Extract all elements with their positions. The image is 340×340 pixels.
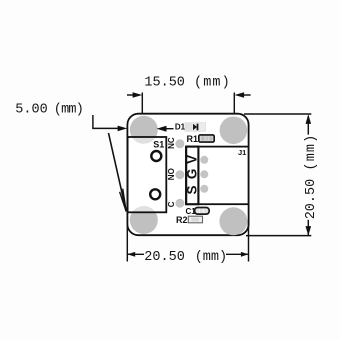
dim 15.50 right arrow bbox=[235, 92, 251, 98]
S1 hole 1 bbox=[151, 151, 161, 161]
svg-text:V: V bbox=[185, 155, 200, 164]
svg-text:C: C bbox=[167, 201, 176, 207]
J1 pad 3 bbox=[200, 185, 208, 193]
svg-text:5.00(mm): 5.00(mm) bbox=[15, 102, 83, 117]
svg-text:D1: D1 bbox=[175, 123, 186, 132]
J1 pad 2 bbox=[200, 170, 208, 178]
svg-text:NC: NC bbox=[167, 137, 176, 149]
dim 15.50 right extension line bbox=[233, 93, 235, 114]
dim 20.50 right top extension line bbox=[244, 113, 311, 115]
header SGV box bbox=[186, 147, 198, 205]
board outline bbox=[127, 114, 248, 236]
mounting hole bottom-right bbox=[219, 207, 247, 235]
dim 20.50 right dimension line bbox=[307, 116, 309, 135]
pad NO bbox=[175, 170, 184, 179]
mounting hole top-left bbox=[130, 116, 158, 144]
dim 20.50 right bottom arrowhead bbox=[306, 226, 312, 236]
relay S1 outline bbox=[128, 137, 167, 212]
diode D1 body bbox=[185, 123, 205, 131]
dim 5.00 leader arrow bbox=[118, 126, 128, 132]
svg-text:20.50(mm): 20.50(mm) bbox=[144, 250, 227, 265]
svg-text:R1: R1 bbox=[187, 134, 199, 144]
pad NC bbox=[175, 139, 184, 148]
svg-text:S1: S1 bbox=[153, 139, 164, 149]
dim 20.50 bottom left arrow bbox=[127, 252, 144, 257]
D1 leader arrow bbox=[157, 126, 174, 132]
dim 20.50 bottom right arrow bbox=[226, 252, 249, 257]
dim 20.50 right bottom extension line bbox=[246, 235, 311, 237]
dim 15.50 left arrow bbox=[127, 92, 142, 98]
svg-text:15.50(mm): 15.50(mm) bbox=[144, 76, 230, 91]
resistor R1 bbox=[199, 135, 214, 142]
dim 20.50 right top arrowhead bbox=[306, 114, 312, 124]
svg-text:G: G bbox=[185, 169, 200, 180]
dim 5.00 diagonal leader bbox=[109, 133, 127, 211]
dim 20.50 bottom right extension line bbox=[248, 220, 250, 262]
pad C bbox=[175, 199, 184, 208]
svg-text:NO: NO bbox=[167, 168, 176, 180]
dim 5.00 diagonal arrowhead bbox=[120, 189, 127, 212]
svg-text:J1: J1 bbox=[238, 148, 246, 157]
mounting hole top-right bbox=[220, 117, 248, 145]
capacitor C1 bbox=[195, 208, 210, 215]
dim 5.00 leader elbow bbox=[93, 115, 120, 128]
svg-text:R2: R2 bbox=[176, 215, 188, 225]
resistor R2 bbox=[188, 216, 202, 223]
S1 hole 2 bbox=[150, 189, 160, 199]
dim 20.50 bottom left extension line bbox=[126, 220, 128, 262]
mounting hole bottom-left bbox=[130, 206, 158, 234]
connector J1 outline bbox=[186, 147, 249, 205]
dim 15.50 left extension line bbox=[141, 93, 143, 114]
J1 pad 1 bbox=[200, 156, 208, 164]
svg-text:20.50(mm): 20.50(mm) bbox=[304, 134, 319, 220]
svg-text:S: S bbox=[185, 185, 200, 194]
